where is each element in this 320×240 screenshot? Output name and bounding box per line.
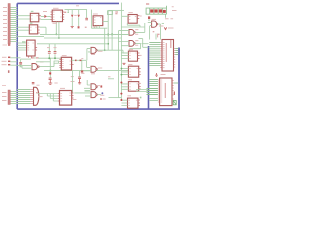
red mark right of jumper (115, 12, 118, 14)
junction dots M2 pins (121, 68, 123, 70)
D1 lower wire (78, 18, 80, 26)
vertical trunk x112.1 (111, 11, 113, 51)
diode D1 (77, 15, 80, 18)
M3 inner pin texts (129, 84, 138, 89)
junction x108.2 y43.8 (107, 43, 109, 45)
green stub y23.5 right (162, 22, 164, 24)
IC1 left pin wires (149, 43, 160, 66)
cap C5 above X1 (32, 82, 35, 83)
green tick below x68.2 (67, 11, 69, 13)
IC2 left bus block (147, 89, 158, 95)
red blob on trunk at x82 (81, 70, 84, 72)
IC4 red tick from X1 side (36, 92, 37, 94)
IC1 inner pin name texts (163, 43, 165, 68)
crystal inner mark (173, 101, 176, 105)
IC1 vertical name text (165, 43, 167, 62)
gate G5 (91, 92, 96, 98)
G5 input wire 1 from IC4 (74, 92, 91, 94)
M2 left pins (121, 69, 128, 75)
LED blob 3 (159, 9, 162, 12)
IC4 right pin ticks (72, 93, 74, 98)
K1 right pin stubs (39, 16, 41, 19)
G3 bubble (96, 68, 98, 70)
horizontal trunk y34.4 (40, 33, 129, 35)
small supply mark left margin y45 (8, 44, 10, 46)
IC4 box bottom left (60, 91, 72, 106)
red tick mark x157.7 (157, 34, 159, 38)
supply symbol row 1 left margin (8, 56, 10, 58)
wire K1 to U2 row2 (41, 18, 51, 20)
R2 label above (81, 58, 83, 60)
IC1 big box right (162, 40, 174, 72)
G3 input vertical (86, 61, 88, 67)
junction x58.9 y38 (58, 37, 60, 39)
K3 bottom pin marks (29, 56, 32, 58)
wire below Q1 (91, 27, 107, 29)
red text left of M3 (138, 82, 140, 84)
Q1 inner pin texts (94, 18, 101, 23)
red junction dot y100 (120, 99, 122, 101)
wire K2 output (40, 27, 46, 34)
K5 right label (140, 15, 142, 17)
horizontal trunk y70.6 (44, 70, 129, 72)
U2 inner pin name texts (53, 12, 62, 20)
staircase label below (38, 96, 43, 98)
resistor row below K3 wire (34, 57, 36, 59)
C3 plates (78, 77, 81, 79)
red symbol right of IC2 (173, 92, 175, 96)
M3 right pin ticks (139, 84, 141, 90)
box M2 (128, 66, 138, 77)
IC1 left pin ticks (160, 43, 162, 68)
G2 label below (91, 54, 95, 56)
cap leg x49.3 (48, 44, 50, 58)
net label green on G5 input (85, 90, 91, 91)
transistor array box Q1 (93, 16, 103, 26)
G3 input wires (84, 67, 91, 70)
M2 inner pin texts (129, 69, 138, 75)
wires into opto K1 (17, 16, 30, 19)
wire y43.7 right of G7 (142, 43, 149, 45)
wire y27 (121, 26, 144, 28)
wire left into trunk y97.6 (109, 97, 122, 99)
IC4 right label (73, 99, 77, 101)
LED blob 1 (150, 9, 153, 12)
supply symbol row 3 left margin (8, 64, 10, 66)
X1 label above (37, 84, 40, 86)
IC2 right pin ticks (172, 81, 174, 100)
crystal green symbol bottom right (173, 101, 176, 105)
C6 lower wire and gnd (19, 64, 22, 67)
M2 right pin ticks (139, 69, 141, 75)
connector SV2 body bottom-left margin (8, 90, 10, 105)
IC4 staircase input wires (38, 94, 58, 102)
M1 left pins (121, 53, 128, 59)
U3 label above (62, 55, 67, 57)
C7 label right (54, 82, 57, 84)
green stub below ladder right (165, 14, 167, 18)
G1 input wire 2 (22, 66, 32, 69)
gate G3 (91, 66, 96, 72)
LED blob 4 (163, 10, 166, 13)
vertical to cap C6 (20, 59, 22, 62)
G1 label right (40, 61, 44, 63)
junction x49.3 y58.2 (48, 57, 50, 59)
verticals below U2 (56, 22, 59, 38)
G5 input wire 2 (85, 95, 91, 97)
top rail wire (65, 9, 88, 11)
capacitor C7 (49, 78, 52, 80)
IC2 right stub wire (174, 82, 179, 84)
vertical trunk x108.2 (107, 10, 109, 50)
M1 gnd below (123, 63, 126, 64)
resistor marks on x86.6 (85, 18, 88, 20)
IC U3 box center (61, 57, 71, 70)
ladder labels right (172, 7, 177, 11)
gate G4 (91, 84, 96, 90)
M3 label above (128, 79, 132, 81)
G4 bubble (96, 86, 98, 88)
horizontal trunk y38 (44, 37, 121, 39)
margin text above SV2 (2, 85, 6, 87)
G2 input wires (87, 49, 91, 52)
G8 output (158, 24, 161, 39)
LED blob 2 (154, 9, 157, 12)
IC4 label above (60, 87, 65, 89)
G8 bubble (156, 23, 158, 25)
vertical trunk x118.5 (118, 31, 120, 98)
box M3 (128, 82, 138, 92)
label below U2 (53, 22, 58, 24)
Q1 label below (93, 26, 97, 28)
G4 output label (97, 85, 100, 87)
polarized cap blob below junction (49, 72, 51, 74)
vertical trunk x121.4 (120, 3, 122, 100)
capacitor C3 on x79.5 (79, 71, 81, 77)
X1 DSUB connector body (34, 87, 39, 105)
wire R2 right (82, 59, 87, 61)
wire inside y59.1 (21, 58, 31, 60)
G5 output wire (97, 94, 101, 96)
M4 right pin ticks (138, 100, 140, 106)
wires into relay K3 (17, 43, 26, 50)
frame sheet border bottom (17, 108, 180, 110)
connector SV1 pin name labels (3, 8, 7, 40)
capacitor C2 (54, 52, 57, 54)
U3 inner pin name texts (62, 60, 71, 68)
frame divider vertical between logic and IC column (148, 46, 150, 109)
left stub wire y78.8 (108, 78, 114, 80)
wire below blob (49, 75, 51, 78)
label below IC1 (161, 74, 166, 76)
G4 input vertical (86, 80, 88, 85)
IC1 vertical value text (170, 40, 172, 48)
wire y36.6 from frame (17, 36, 44, 38)
M4 left pins (121, 100, 127, 105)
G4 input wires (84, 85, 91, 88)
G2 input vertical (86, 49, 88, 61)
gnd symbol below IC1 (155, 73, 158, 76)
wire R1 to R2 (77, 59, 80, 61)
supply row 1 label (2, 56, 7, 58)
vertical x81.8 down to trunk (81, 60, 83, 70)
K5 left pin wire (122, 15, 128, 17)
horizontal trunk y43.8 (37, 43, 108, 45)
C2 label (54, 47, 57, 49)
diode D3 (71, 15, 74, 18)
junction x104.7 y50.2 (104, 49, 106, 51)
G4 output red blob (100, 85, 102, 87)
opto K1 box (30, 13, 39, 21)
K5 right pin stubs (137, 16, 139, 19)
small texts above right (165, 18, 173, 20)
G7 output loop into M1 (130, 43, 141, 51)
green tick below red symbol (148, 19, 150, 21)
junction at 50.3 70.6 (49, 70, 51, 72)
G6 input wires (112, 31, 129, 35)
relay K5 box (128, 15, 137, 24)
junction dot M2 pin3 (121, 74, 123, 76)
connector SV1 body top-left margin (8, 4, 10, 45)
LED ladder rails top right (146, 6, 167, 14)
K3 inner pin texts (28, 43, 34, 50)
U2 label above (53, 7, 59, 9)
M4 label above (127, 95, 131, 97)
red junction dot y93.6 (120, 93, 122, 95)
G7 bubble (134, 43, 136, 45)
M2 label above (128, 64, 132, 66)
label above rail (76, 5, 79, 7)
IC2 left pin ticks (158, 80, 160, 102)
wires entering bus from left (136, 90, 148, 92)
M1 right label (140, 54, 142, 56)
connector SV2 labels (2, 93, 7, 101)
G7 labels right (135, 41, 138, 46)
X1 pin ticks (30, 90, 33, 104)
X1 connector wires bundle (17, 90, 30, 104)
G5 bubble (96, 94, 98, 96)
vertical trunk x104.7 (104, 28, 106, 50)
G6 output (135, 23, 145, 32)
K3 right pin stubs (35, 48, 37, 51)
drop x86.6 (86, 10, 88, 18)
G3 label right (98, 67, 102, 69)
U3 left pin ticks (59, 60, 61, 68)
small red below x86.6 (85, 26, 87, 28)
junction x112.1 y34.4 (111, 33, 113, 35)
M3 left pins (121, 84, 128, 89)
junction x108.2 y34.5 (107, 34, 109, 36)
resistor row below K3 right text (36, 57, 39, 59)
gate G7 (129, 41, 134, 47)
IC2 left pin wires lower (149, 99, 158, 101)
gate G6 (129, 30, 134, 36)
U2 right pin ticks (63, 12, 65, 20)
IC2 left pin wires (149, 80, 158, 86)
G2 bubble (96, 50, 98, 52)
horizontal trunk y58.2 (38, 57, 62, 59)
opto K2 box (29, 25, 37, 34)
drop x72.2 (71, 10, 73, 15)
wire from supply row 2 (10, 61, 17, 63)
G7 input wires (119, 42, 130, 46)
box M1 (128, 51, 137, 61)
M1 inner pin texts (129, 53, 137, 59)
D2 label above (43, 11, 47, 13)
Q1 label above (93, 13, 98, 15)
U3 right pin tick mid (72, 64, 74, 66)
IC1 right pin wires (175, 49, 178, 55)
resistor R1 blob (75, 60, 77, 62)
capacitor C6 (19, 63, 22, 64)
G2 label right (98, 50, 103, 52)
K5 inner pin texts (129, 16, 136, 19)
Q1 bottom pin stubs (95, 26, 100, 29)
red net segment from U2 pin (64, 11, 66, 13)
G5 label below (100, 94, 104, 96)
D3 gnd marks (71, 27, 74, 28)
IC U2 box top-left (52, 10, 62, 22)
C3 label left (71, 76, 74, 78)
capacitor C1 (48, 52, 51, 54)
drop x78.7 (78, 10, 80, 15)
K2 net label green above (30, 23, 33, 24)
wire from supply row 3 (10, 64, 17, 66)
G5 output blue mark (101, 92, 103, 94)
supply row 3 label (2, 64, 7, 66)
value label text below G5 output (103, 98, 106, 100)
wire y61.8 (36, 61, 50, 63)
D3 lower wire (71, 18, 73, 27)
G1 output wire (39, 63, 54, 66)
vertical x91.4 (90, 10, 92, 29)
IC2 vertical name text (164, 83, 166, 98)
G6 labels right (135, 30, 138, 35)
diode D2 between K1 and U2 (44, 15, 47, 18)
value label blob below G5 output (100, 98, 102, 99)
box M4 (128, 98, 139, 108)
C1 label (47, 47, 50, 49)
wire from jumper to K5 (108, 9, 124, 11)
G1 input wire 1 (17, 65, 32, 67)
G1 output bubble (38, 66, 40, 68)
wire K1 to U2 row1 (41, 15, 51, 17)
Q1 right pin wire (103, 20, 108, 22)
net label box right of G1 (54, 61, 59, 63)
M4 inner pin texts (128, 100, 137, 105)
supply row 2 label (2, 60, 7, 62)
junction x55 y58.2 (54, 57, 56, 59)
G8 label right (159, 25, 164, 27)
M1 label above (129, 49, 133, 51)
red junction dot on trunk y82.5 (120, 82, 122, 84)
label below blob (81, 72, 84, 74)
K1 inner pin texts (31, 16, 38, 19)
K3 net label green above-left (22, 41, 26, 42)
wire U3 right to resistors (72, 59, 75, 61)
M1 right pin ticks (138, 53, 140, 59)
K2 inner pin texts (30, 27, 37, 30)
G2 output wire long (97, 50, 128, 53)
frame sheet border left (16, 3, 18, 109)
red mark left of trunk (108, 76, 111, 78)
red pin number marks above IC1 (153, 32, 160, 35)
ladder label above (146, 3, 149, 5)
red symbol below ladder left (148, 16, 150, 19)
frame divider vertical right edge (178, 48, 180, 110)
verticals into IC1 top (150, 26, 156, 40)
wire from supply row 1 (10, 57, 20, 59)
resistor R2 blob (80, 60, 82, 62)
G8 input wires (148, 22, 152, 25)
K1 net label green above (31, 11, 34, 12)
small symbol mark left margin mid (8, 70, 10, 73)
text row below left (71, 81, 75, 83)
G3 label below (91, 73, 95, 75)
green net label right of M4 (140, 97, 142, 99)
relay K3 box (27, 40, 35, 56)
K5 label above (128, 12, 132, 14)
supply symbol row 2 left margin (8, 60, 10, 62)
wires into opto K2 (17, 27, 29, 30)
IC2 big box right bottom (160, 78, 172, 106)
vertical x50.3 (49, 58, 51, 70)
IC4 inner pin name texts (60, 93, 71, 101)
resistor row below K3 left text (31, 57, 34, 59)
IC2 inner pin name texts (160, 80, 162, 102)
label for y45 mark (3, 44, 8, 46)
U2 left pin ticks (51, 12, 53, 20)
IC1P label right (168, 27, 174, 29)
frame sheet border top (17, 2, 119, 4)
gate G8 (152, 21, 157, 27)
K2 right pin stubs (38, 27, 40, 33)
C7 gnd (48, 80, 52, 84)
connector SV1 pin wires bundle (11, 8, 18, 42)
G8 label above (152, 18, 156, 20)
vertical x72.5 lower trunk (72, 71, 74, 93)
junction x56.3 y34.4 (55, 34, 57, 36)
short drop x68.2 (67, 10, 69, 13)
gate G2 (91, 47, 96, 53)
IC4 left pin ticks (58, 94, 60, 102)
supply arrow right (164, 27, 166, 29)
C3 lower wire gnd (78, 79, 81, 84)
IC1 right pin ticks (174, 49, 176, 68)
cap leg x55 (54, 44, 56, 58)
connector SV2 pin wires bundle (11, 92, 18, 104)
D1 bottom red blob (78, 26, 80, 28)
gate G1 body (32, 64, 37, 70)
vertical green x142.7 (139, 39, 149, 48)
K5 bottom loop wire (127, 23, 140, 27)
D3 label right (74, 14, 77, 16)
G6 bubble (134, 32, 136, 34)
green jumper box top middle (108, 11, 113, 15)
